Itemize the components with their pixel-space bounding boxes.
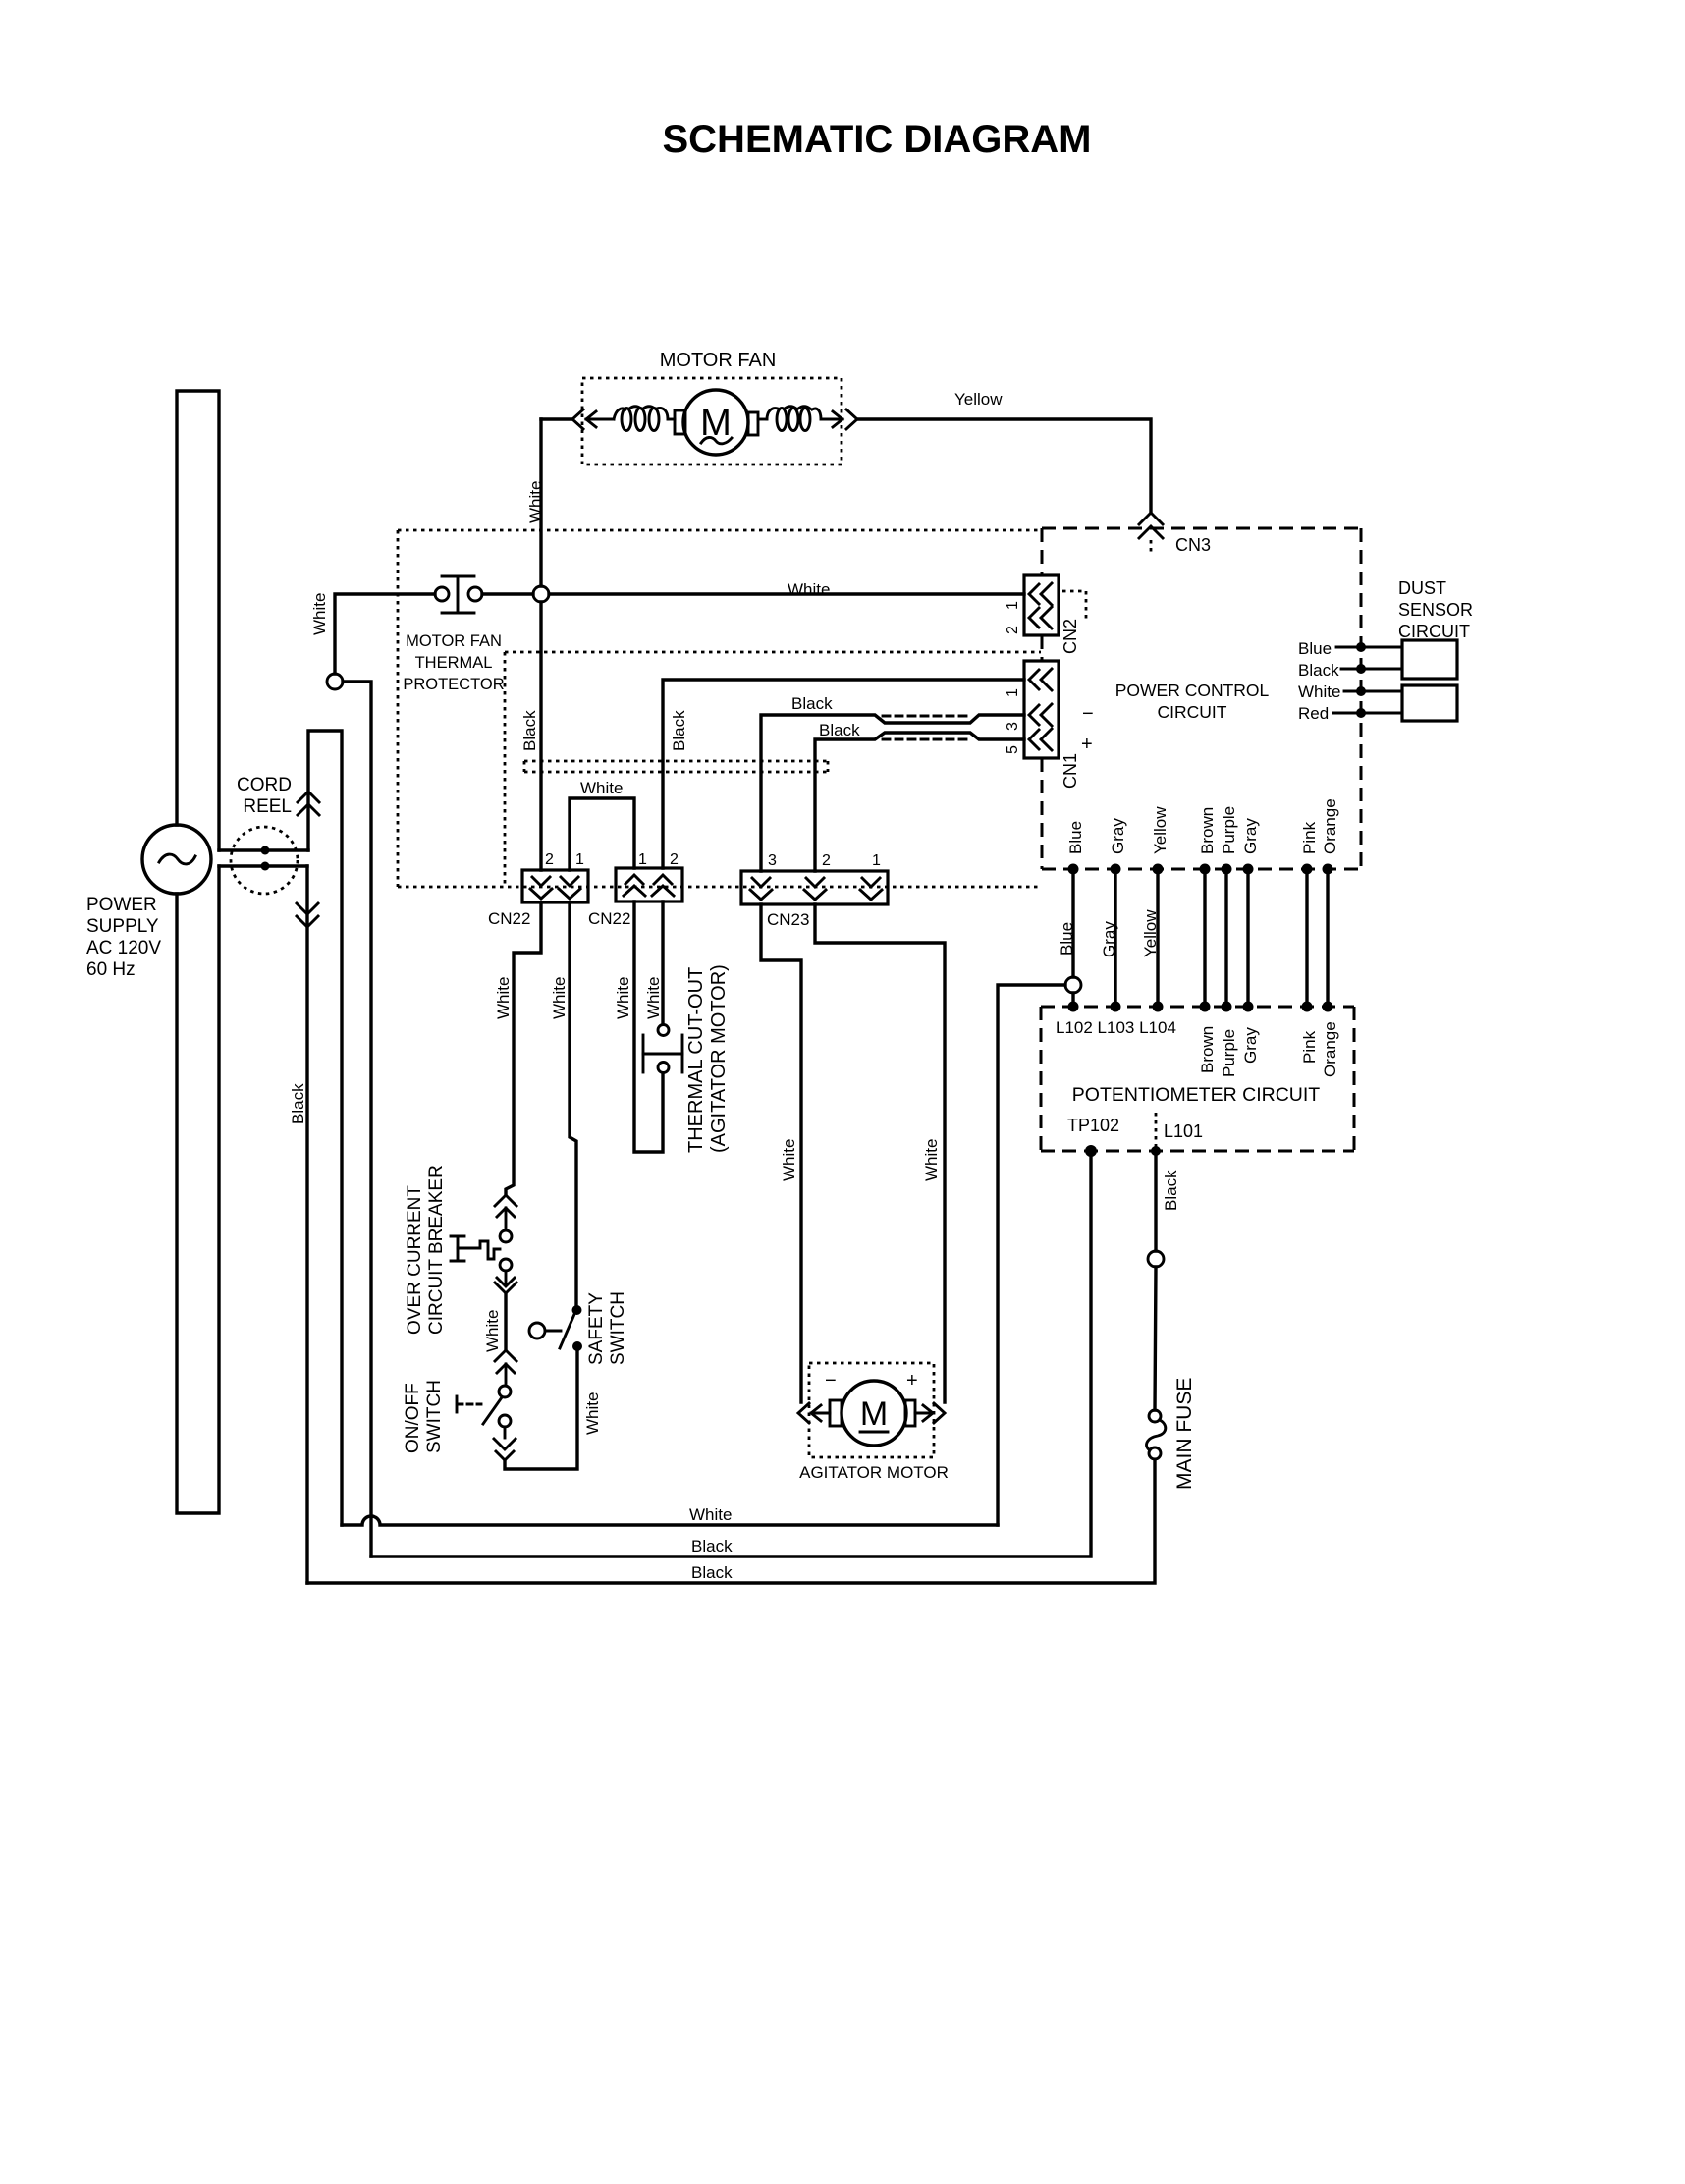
svg-text:Gray: Gray: [1241, 818, 1260, 854]
connector arrows right (motor fan): [821, 409, 857, 429]
svg-text:+: +: [1081, 734, 1093, 755]
wire brown: [1198, 807, 1217, 1073]
svg-text:Black: Black: [1162, 1170, 1180, 1211]
connector CN22 (right): [616, 868, 682, 901]
dotted fragment right of CN2: [1062, 591, 1086, 619]
wire gray: [1100, 818, 1127, 1012]
svg-text:CN3: CN3: [1175, 535, 1211, 555]
connector arrows agitator right: [915, 1403, 945, 1423]
connector chevrons above on/off switch: [495, 1350, 516, 1386]
svg-text:Brown: Brown: [1198, 1026, 1217, 1073]
svg-text:CN1: CN1: [1060, 753, 1080, 789]
svg-text:1: 1: [1005, 688, 1021, 697]
wire: white return from blue junction down-left: [998, 985, 1065, 1525]
wire: CN23 pin2 down to agitator motor right: [815, 904, 945, 1402]
wire: bottom black line 1 (TP102 return): [371, 1151, 1091, 1556]
svg-text:White: White: [922, 1139, 941, 1181]
safety switch: [529, 1305, 582, 1351]
wire pink: [1300, 821, 1319, 1064]
svg-text:2: 2: [822, 852, 831, 869]
svg-text:Black: Black: [670, 710, 688, 751]
svg-text:Black: Black: [1298, 661, 1339, 680]
svg-text:White: White: [1298, 682, 1340, 701]
svg-text:Black: Black: [691, 1537, 733, 1556]
twisted pair dotted outline: [883, 716, 972, 739]
svg-text:Black: Black: [819, 721, 860, 739]
svg-text:SCHEMATIC DIAGRAM: SCHEMATIC DIAGRAM: [662, 118, 1091, 161]
label POWER CONTROL CIRCUIT: [1115, 681, 1270, 722]
inductor coil left: [614, 407, 675, 431]
svg-text:Gray: Gray: [1109, 818, 1127, 854]
dotted harness strip: [524, 761, 828, 772]
svg-text:Pink: Pink: [1300, 821, 1319, 854]
wire: cord reel bottom feed: [219, 864, 307, 867]
svg-text:L102 L103 L104: L102 L103 L104: [1056, 1018, 1176, 1037]
motor fan thermal protector dotted enclosure: [398, 530, 1041, 887]
CN1 pin labels: [1005, 688, 1021, 754]
wire: cord reel riser up and over to white drop: [308, 731, 342, 1525]
motor fan thermal protector label: [403, 632, 504, 693]
svg-text:White: White: [614, 977, 632, 1019]
svg-text:White: White: [550, 977, 569, 1019]
svg-text:CIRCUIT: CIRCUIT: [1398, 622, 1470, 641]
svg-text:Yellow: Yellow: [1151, 806, 1169, 854]
svg-text:SWITCH: SWITCH: [424, 1380, 445, 1453]
connector CN3 chevrons: [1139, 513, 1163, 538]
svg-text:White: White: [780, 1139, 798, 1181]
svg-text:Black: Black: [691, 1563, 733, 1582]
svg-text:CN2: CN2: [1060, 619, 1080, 654]
svg-text:White: White: [644, 977, 663, 1019]
motor terminal right: [748, 412, 758, 435]
thermal cut-out switch: [643, 1025, 682, 1073]
connector arrows left (motor fan): [572, 409, 614, 429]
power supply source AC circle: [142, 825, 211, 894]
svg-text:Yellow: Yellow: [1141, 909, 1160, 957]
motor fan dotted box: [582, 378, 842, 464]
wire+chevrons below on/off switch: [494, 1427, 516, 1460]
svg-text:Pink: Pink: [1300, 1030, 1319, 1064]
wire: black drop from cord reel to bottom black line: [305, 866, 308, 1583]
svg-text:MOTOR FAN: MOTOR FAN: [406, 632, 502, 650]
svg-text:Black: Black: [791, 694, 833, 713]
junction dot: [261, 846, 270, 855]
node: 4-way junction circle on white bus: [533, 586, 549, 602]
svg-text:POTENTIOMETER CIRCUIT: POTENTIOMETER CIRCUIT: [1072, 1084, 1321, 1106]
wire: black CN23 pin2 to CN1 pin5 (twisted): [815, 733, 1024, 871]
svg-text:−: −: [825, 1370, 837, 1392]
svg-text:CN23: CN23: [767, 910, 809, 929]
connector chevrons down on black drop: [297, 903, 318, 927]
node: blue circle junction: [1065, 977, 1081, 993]
power supply label: [86, 895, 161, 980]
svg-text:DUST: DUST: [1398, 578, 1446, 598]
circuit breaker contact circles: [500, 1230, 512, 1242]
ON/OFF SWITCH label (vertical): [403, 1380, 445, 1453]
wire: CN22 left pin2 down to breaker: [506, 902, 541, 1194]
svg-text:CORD: CORD: [237, 775, 292, 795]
svg-text:AC 120V: AC 120V: [86, 938, 161, 958]
svg-text:POWER: POWER: [86, 895, 157, 915]
motor fan M circle: [683, 390, 748, 455]
wire: CN22 right pin1 down + U to cutout: [634, 901, 663, 1152]
connector chevrons up on riser: [298, 792, 319, 815]
POWER CONTROL CIRCUIT dashed box: [1042, 528, 1361, 869]
svg-text:(AGITATOR MOTOR): (AGITATOR MOTOR): [708, 964, 730, 1153]
wire: CN23 pin3 down to agitator motor left: [761, 904, 801, 1402]
connector arrows agitator left: [798, 1403, 830, 1423]
circuit breaker actuator: [451, 1236, 500, 1261]
svg-text:POWER CONTROL: POWER CONTROL: [1115, 681, 1270, 700]
wire: power cord loop rectangle: [177, 391, 219, 1513]
svg-text:THERMAL CUT-OUT: THERMAL CUT-OUT: [685, 967, 707, 1153]
svg-text:CIRCUIT: CIRCUIT: [1158, 702, 1227, 722]
wire: CN22 left pin1 down to safety switch: [570, 902, 576, 1305]
svg-text:SAFETY: SAFETY: [586, 1292, 607, 1365]
wire purple: [1220, 806, 1238, 1077]
svg-text:+: +: [906, 1370, 918, 1392]
svg-text:Blue: Blue: [1066, 821, 1085, 854]
dust sensor connector block 2: [1402, 685, 1457, 721]
svg-text:Purple: Purple: [1220, 1029, 1238, 1077]
CN2 pin labels: [1005, 601, 1021, 634]
wire: junction to black drop column: [343, 682, 371, 1556]
connector CN1: [1024, 661, 1059, 758]
motor terminal left: [675, 410, 685, 434]
svg-text:2: 2: [545, 851, 554, 868]
svg-text:Gray: Gray: [1241, 1027, 1260, 1064]
svg-text:MOTOR FAN: MOTOR FAN: [660, 350, 777, 371]
svg-text:Yellow: Yellow: [954, 390, 1003, 409]
wire blue: power control to potentiometer: [1058, 821, 1085, 1012]
svg-text:2: 2: [1005, 626, 1021, 634]
svg-text:White: White: [788, 580, 830, 599]
svg-text:3: 3: [768, 852, 777, 869]
dotted connector line through CN22/CN23: [398, 886, 1041, 889]
svg-text:PROTECTOR: PROTECTOR: [403, 676, 504, 693]
OVER CURRENT CIRCUIT BREAKER label (vertical): [405, 1165, 447, 1335]
motor terminal left: [830, 1400, 842, 1426]
svg-text:White: White: [583, 1392, 602, 1435]
POTENTIOMETER CIRCUIT dashed box: [1041, 1007, 1354, 1151]
CN22 left pin labels: [545, 851, 584, 868]
wire yellow: [1141, 806, 1169, 1012]
svg-text:2: 2: [670, 851, 679, 868]
connector chevrons above breaker: [495, 1195, 516, 1229]
svg-text:SUPPLY: SUPPLY: [86, 916, 159, 937]
svg-text:White: White: [526, 481, 545, 523]
wire: motor fan left lead: [541, 417, 572, 420]
svg-text:CN22: CN22: [488, 909, 530, 928]
DUST SENSOR CIRCUIT label: [1398, 578, 1473, 641]
wire: black CN1 pin1 run: [663, 680, 1024, 868]
wire: white from thermal protector left down to junction: [335, 594, 435, 674]
wire: L101 down to fuse: [1155, 1151, 1156, 1410]
node L101 dot: [1151, 1146, 1161, 1156]
svg-text:M: M: [860, 1395, 888, 1433]
wire: cord reel top feed: [219, 848, 308, 851]
svg-text:Brown: Brown: [1198, 807, 1217, 854]
svg-text:60 Hz: 60 Hz: [86, 959, 136, 980]
svg-text:Orange: Orange: [1321, 1021, 1339, 1077]
svg-text:REEL: REEL: [243, 796, 292, 817]
connector CN22 (left): [522, 870, 588, 902]
svg-text:1: 1: [1005, 601, 1021, 610]
svg-text:3: 3: [1005, 722, 1021, 731]
junction dot: [261, 862, 270, 871]
cord reel label: [237, 775, 292, 817]
CN23 pin labels: [768, 852, 881, 869]
svg-text:Orange: Orange: [1321, 798, 1339, 854]
svg-text:Black: Black: [289, 1083, 307, 1124]
svg-text:−: −: [1082, 703, 1094, 725]
SAFETY SWITCH label (vertical): [586, 1291, 628, 1365]
svg-text:5: 5: [1005, 745, 1021, 754]
svg-text:Blue: Blue: [1058, 922, 1076, 955]
agitator motor M circle: [842, 1381, 906, 1446]
svg-text:White: White: [689, 1505, 732, 1524]
svg-text:White: White: [494, 977, 513, 1019]
wire: yellow run to CN3: [857, 419, 1151, 512]
svg-text:AGITATOR MOTOR: AGITATOR MOTOR: [799, 1463, 949, 1482]
on/off switch: [457, 1386, 511, 1427]
svg-text:Black: Black: [520, 710, 539, 751]
dust sensor wire labels: [1298, 639, 1340, 723]
node: open circle on fuse wire: [1148, 1251, 1164, 1267]
svg-text:CIRCUIT BREAKER: CIRCUIT BREAKER: [426, 1165, 447, 1335]
wire: bottom white line with hop: [342, 1516, 998, 1525]
svg-text:White: White: [310, 593, 329, 635]
svg-text:1: 1: [872, 852, 881, 869]
cord reel dashed circle: [231, 827, 298, 894]
svg-text:Red: Red: [1298, 704, 1329, 723]
dust sensor wires and node dots: [1333, 642, 1402, 718]
svg-text:1: 1: [575, 851, 584, 868]
wire orange: [1321, 798, 1339, 1077]
svg-text:CN22: CN22: [588, 909, 630, 928]
connector CN2: [1024, 575, 1059, 635]
svg-text:Purple: Purple: [1220, 806, 1238, 854]
svg-text:MAIN FUSE: MAIN FUSE: [1173, 1378, 1196, 1490]
svg-text:THERMAL: THERMAL: [415, 654, 493, 672]
wire between breaker and on/off switch: [504, 1293, 507, 1349]
svg-text:Gray: Gray: [1100, 921, 1118, 957]
wire: white bus from protector to CN2 pin1: [482, 592, 1024, 595]
CN22 right pin labels: [638, 851, 679, 868]
inner dotted enclosure left: [504, 652, 507, 887]
thermal protector switch symbol: [435, 576, 482, 613]
THERMAL CUT-OUT label (vertical): [685, 964, 730, 1153]
wire: black CN23 pin3 to CN1 pin3 (twisted): [761, 715, 1024, 871]
white bridge wire between CN22 connectors: [570, 798, 634, 870]
wire: bottom black line 2 (main fuse return): [307, 1461, 1155, 1583]
wire: bottom U from on/off to safety switch: [505, 1351, 577, 1469]
svg-text:TP102: TP102: [1067, 1116, 1119, 1135]
svg-text:OVER CURRENT: OVER CURRENT: [405, 1185, 425, 1335]
dust sensor connector block 1: [1402, 640, 1457, 679]
svg-text:White: White: [580, 779, 623, 797]
motor terminal right: [905, 1400, 915, 1426]
L101 dotted stub: [1155, 1113, 1158, 1147]
wire: CN22 right pin2 down to cutout: [661, 901, 664, 1024]
agitator motor dotted box: [809, 1363, 934, 1457]
wire+arrow below breaker: [495, 1271, 516, 1293]
node junction circle: [327, 674, 343, 689]
wire: motor fan white drop: [539, 419, 542, 870]
svg-text:L101: L101: [1164, 1121, 1203, 1141]
main fuse symbol: [1147, 1410, 1166, 1459]
svg-text:White: White: [483, 1310, 502, 1352]
node TP102 dot: [1085, 1145, 1097, 1157]
svg-text:SENSOR: SENSOR: [1398, 600, 1473, 620]
svg-text:Blue: Blue: [1298, 639, 1332, 658]
wire gray 2: [1241, 818, 1260, 1064]
svg-text:ON/OFF: ON/OFF: [403, 1383, 423, 1453]
svg-text:SWITCH: SWITCH: [608, 1291, 628, 1365]
svg-text:1: 1: [638, 851, 647, 868]
inductor coil right: [758, 407, 821, 431]
inner dotted enclosure top: [505, 651, 1041, 654]
CN3 dotted stub: [1150, 540, 1153, 556]
connector CN23: [741, 871, 888, 904]
